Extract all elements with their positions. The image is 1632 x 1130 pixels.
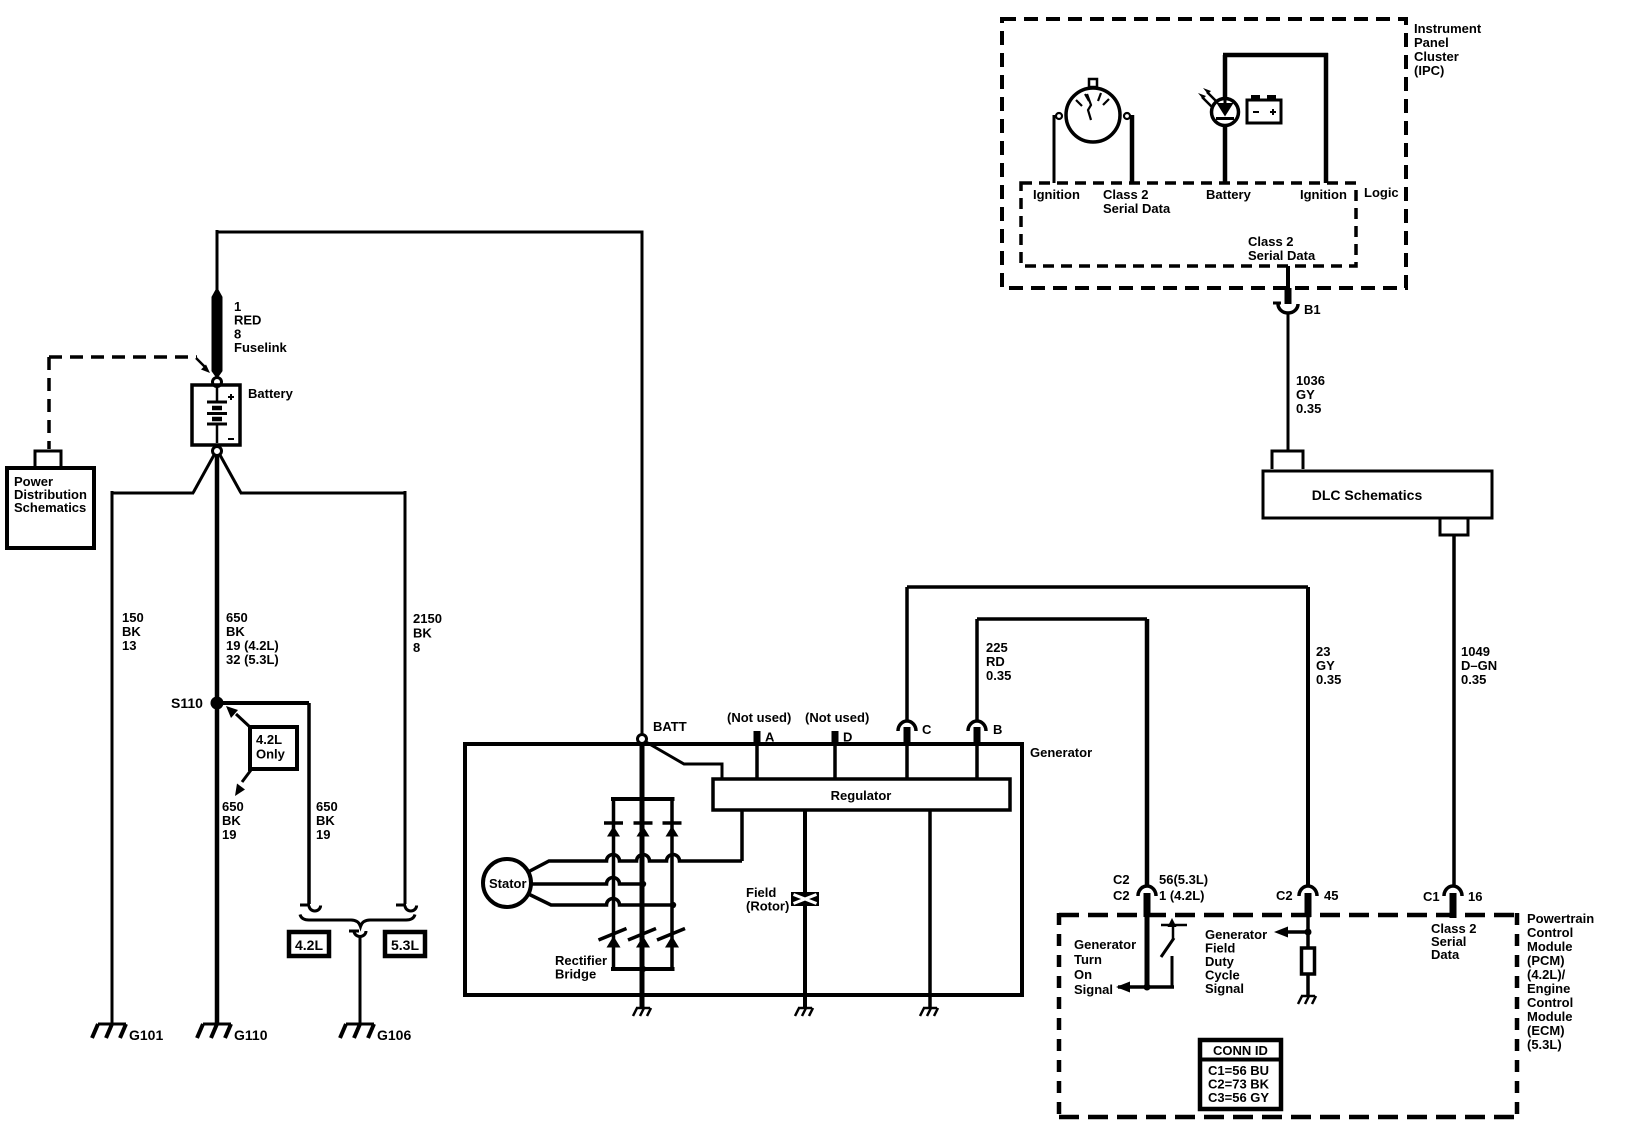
svg-text:Logic: Logic — [1364, 185, 1399, 200]
svg-text:CONN ID: CONN ID — [1213, 1043, 1268, 1058]
svg-text:19 (4.2L): 19 (4.2L) — [226, 638, 279, 653]
svg-text:GY: GY — [1316, 658, 1335, 673]
svg-text:Engine: Engine — [1527, 981, 1570, 996]
svg-text:Module: Module — [1527, 1009, 1573, 1024]
svg-text:(IPC): (IPC) — [1414, 63, 1444, 78]
svg-text:2150: 2150 — [413, 611, 442, 626]
svg-text:Control: Control — [1527, 925, 1573, 940]
svg-text:Cluster: Cluster — [1414, 49, 1459, 64]
svg-text:150: 150 — [122, 610, 144, 625]
svg-text:Class 2: Class 2 — [1248, 234, 1294, 249]
svg-text:RD: RD — [986, 654, 1005, 669]
svg-text:(Rotor): (Rotor) — [746, 899, 789, 914]
svg-text:D: D — [843, 730, 852, 745]
svg-text:C1: C1 — [1423, 889, 1440, 904]
svg-text:5.3L: 5.3L — [391, 937, 419, 953]
svg-text:0.35: 0.35 — [1461, 672, 1486, 687]
svg-text:Control: Control — [1527, 995, 1573, 1010]
svg-text:Schematics: Schematics — [14, 500, 86, 515]
svg-text:A: A — [765, 730, 775, 745]
svg-text:8: 8 — [413, 640, 420, 655]
svg-text:G106: G106 — [377, 1027, 411, 1043]
svg-text:(5.3L): (5.3L) — [1527, 1037, 1562, 1052]
svg-text:C2: C2 — [1276, 888, 1293, 903]
svg-text:C2: C2 — [1113, 888, 1130, 903]
svg-text:Only: Only — [256, 747, 286, 762]
svg-text:B1: B1 — [1304, 302, 1321, 317]
svg-text:0.35: 0.35 — [986, 668, 1011, 683]
svg-text:Panel: Panel — [1414, 35, 1449, 50]
svg-text:23: 23 — [1316, 644, 1330, 659]
svg-text:Turn: Turn — [1074, 952, 1102, 967]
svg-text:Battery: Battery — [248, 386, 294, 401]
svg-text:Instrument: Instrument — [1414, 21, 1482, 36]
svg-text:C: C — [922, 722, 932, 737]
svg-text:(Not used): (Not used) — [805, 710, 869, 725]
svg-text:1036: 1036 — [1296, 373, 1325, 388]
svg-text:Ignition: Ignition — [1033, 187, 1080, 202]
svg-text:1 (4.2L): 1 (4.2L) — [1159, 888, 1205, 903]
svg-text:13: 13 — [122, 638, 136, 653]
svg-text:Signal: Signal — [1074, 982, 1113, 997]
svg-text:(Not used): (Not used) — [727, 710, 791, 725]
svg-text:Module: Module — [1527, 939, 1573, 954]
svg-text:(ECM): (ECM) — [1527, 1023, 1565, 1038]
svg-text:56(5.3L): 56(5.3L) — [1159, 872, 1208, 887]
svg-text:Generator: Generator — [1074, 937, 1136, 952]
svg-text:0.35: 0.35 — [1316, 672, 1341, 687]
svg-text:4.2L: 4.2L — [295, 937, 323, 953]
svg-text:C3=56 GY: C3=56 GY — [1208, 1090, 1269, 1105]
svg-text:650: 650 — [316, 799, 338, 814]
svg-text:BK: BK — [226, 624, 245, 639]
svg-text:16: 16 — [1468, 889, 1482, 904]
svg-text:D–GN: D–GN — [1461, 658, 1497, 673]
svg-text:Signal: Signal — [1205, 981, 1244, 996]
svg-text:BK: BK — [122, 624, 141, 639]
svg-text:Serial Data: Serial Data — [1248, 248, 1316, 263]
svg-text:Bridge: Bridge — [555, 967, 596, 982]
svg-text:DLC Schematics: DLC Schematics — [1312, 487, 1423, 503]
svg-text:19: 19 — [222, 827, 236, 842]
svg-text:Data: Data — [1431, 947, 1460, 962]
svg-text:BK: BK — [413, 626, 432, 641]
svg-text:Regulator: Regulator — [831, 788, 892, 803]
svg-text:19: 19 — [316, 827, 330, 842]
svg-text:G101: G101 — [129, 1027, 163, 1043]
svg-text:650: 650 — [222, 799, 244, 814]
svg-text:(4.2L)/: (4.2L)/ — [1527, 967, 1566, 982]
svg-text:Ignition: Ignition — [1300, 187, 1347, 202]
svg-text:45: 45 — [1324, 888, 1338, 903]
svg-text:BK: BK — [316, 813, 335, 828]
svg-text:C2: C2 — [1113, 872, 1130, 887]
svg-text:4.2L: 4.2L — [256, 732, 282, 747]
svg-text:On: On — [1074, 967, 1092, 982]
svg-text:G110: G110 — [234, 1027, 268, 1043]
svg-text:Powertrain: Powertrain — [1527, 911, 1594, 926]
svg-text:Fuselink: Fuselink — [234, 340, 288, 355]
svg-text:(PCM): (PCM) — [1527, 953, 1565, 968]
svg-text:Class 2: Class 2 — [1103, 187, 1149, 202]
svg-text:225: 225 — [986, 640, 1008, 655]
svg-text:0.35: 0.35 — [1296, 401, 1321, 416]
svg-text:BK: BK — [222, 813, 241, 828]
svg-text:S110: S110 — [171, 695, 203, 711]
svg-text:Stator: Stator — [489, 876, 527, 891]
svg-text:650: 650 — [226, 610, 248, 625]
svg-text:Generator: Generator — [1030, 745, 1092, 760]
svg-text:GY: GY — [1296, 387, 1315, 402]
svg-text:BATT: BATT — [653, 719, 687, 734]
svg-text:32 (5.3L): 32 (5.3L) — [226, 652, 279, 667]
svg-text:Serial Data: Serial Data — [1103, 201, 1171, 216]
svg-text:Battery: Battery — [1206, 187, 1252, 202]
svg-text:B: B — [993, 722, 1002, 737]
svg-text:1049: 1049 — [1461, 644, 1490, 659]
